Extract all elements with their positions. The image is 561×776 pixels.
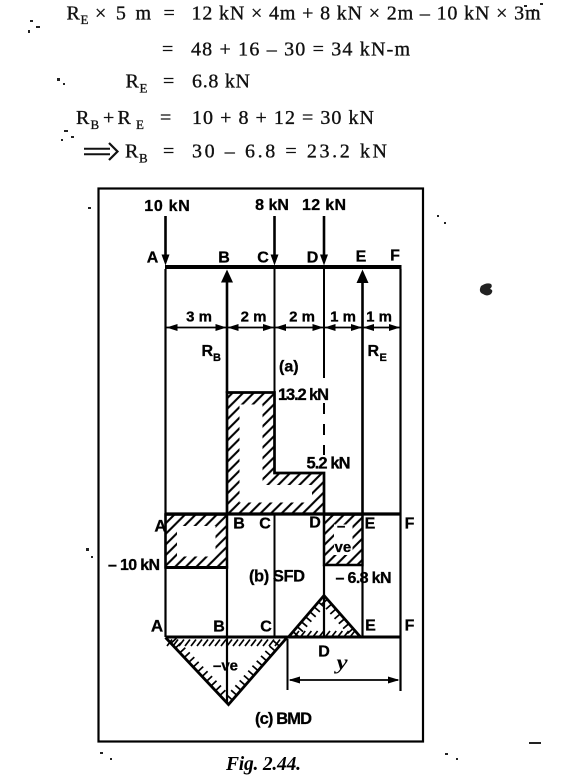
grid line E lower xyxy=(361,566,363,637)
svg-text:E: E xyxy=(380,352,387,364)
svg-text:ve: ve xyxy=(335,539,352,556)
svg-text:D: D xyxy=(307,250,319,267)
svg-text:y: y xyxy=(333,652,347,674)
svg-text:– 10 kN: – 10 kN xyxy=(108,557,160,574)
svg-text:R: R xyxy=(202,343,214,360)
svg-text:C: C xyxy=(259,516,271,533)
beam line xyxy=(165,265,402,269)
svg-text:–: – xyxy=(337,518,345,535)
svg-text:(b) SFD: (b) SFD xyxy=(249,568,305,586)
down arrow at x=324.0 xyxy=(320,216,328,266)
svg-text:12 kN × 4m + 8 kN × 2m – 10 kN: 12 kN × 4m + 8 kN × 2m – 10 kN × 3m xyxy=(192,3,541,25)
svg-text:B: B xyxy=(91,117,100,132)
equation line 4 xyxy=(76,107,374,132)
down arrow at x=274.5 xyxy=(271,216,279,266)
svg-text:F: F xyxy=(405,618,415,635)
svg-text:R: R xyxy=(76,107,90,129)
svg-text:A: A xyxy=(154,517,166,536)
svg-text:10 kN: 10 kN xyxy=(144,198,190,215)
y dimension vertical ticks xyxy=(287,639,289,690)
BMD letters xyxy=(151,617,415,661)
svg-text:R: R xyxy=(125,141,139,163)
grid line B lower xyxy=(226,566,228,703)
SFD negative rect D-E xyxy=(324,515,363,566)
svg-text:A: A xyxy=(151,617,163,636)
grid line D dashed xyxy=(323,403,325,455)
dimension labels xyxy=(186,309,392,326)
svg-text:E: E xyxy=(140,81,148,96)
svg-text:R: R xyxy=(67,3,81,25)
svg-text:Fig. 2.44.: Fig. 2.44. xyxy=(225,754,301,775)
reaction arrow R_E (up) xyxy=(357,270,369,515)
equation line 1 xyxy=(67,3,541,28)
grid line D lower xyxy=(323,565,325,637)
svg-text:D: D xyxy=(318,644,330,661)
svg-text:C: C xyxy=(260,619,272,636)
svg-text:+: + xyxy=(103,107,114,129)
equation line 5 xyxy=(84,141,387,166)
figure border box xyxy=(99,189,424,742)
svg-text:(c) BMD: (c) BMD xyxy=(255,710,312,728)
SFD axis xyxy=(166,512,402,515)
SFD positive shape hatch band xyxy=(227,393,324,515)
reaction arrow R_B (up) xyxy=(221,270,233,394)
svg-text:10 + 8 + 12 = 30 kN: 10 + 8 + 12 = 30 kN xyxy=(192,107,374,129)
svg-text:E: E xyxy=(365,618,376,635)
grid line F xyxy=(399,269,401,691)
svg-text:2 m: 2 m xyxy=(241,309,267,326)
svg-text:1 m: 1 m xyxy=(330,309,356,326)
svg-text:E: E xyxy=(356,249,367,266)
BMD negative triangle outline xyxy=(166,638,288,705)
label -ve in SFD xyxy=(335,518,352,556)
dimension line xyxy=(166,327,401,329)
grid line C xyxy=(274,269,276,473)
SFD negative rect A-B xyxy=(166,515,228,568)
label R_E xyxy=(368,343,387,364)
grid line A xyxy=(164,269,166,637)
svg-text:F: F xyxy=(405,516,415,533)
y dimension arrow xyxy=(289,677,400,684)
beam letters A-F xyxy=(147,248,400,267)
svg-text:E: E xyxy=(81,12,89,27)
svg-text:3 m: 3 m xyxy=(186,309,212,326)
svg-text:E: E xyxy=(365,516,376,533)
equation line 3 xyxy=(126,71,251,96)
svg-text:B: B xyxy=(233,516,245,533)
svg-text:=: = xyxy=(162,39,173,61)
svg-text:=: = xyxy=(164,3,175,25)
svg-text:8 kN: 8 kN xyxy=(255,197,289,214)
label R_B xyxy=(202,343,222,364)
svg-text:2 m: 2 m xyxy=(289,309,315,326)
svg-text:=: = xyxy=(163,141,174,163)
svg-text:12 kN: 12 kN xyxy=(302,197,346,214)
svg-text:E: E xyxy=(136,117,144,132)
equation line 2 xyxy=(162,39,410,61)
svg-text:R: R xyxy=(368,343,380,360)
svg-text:48 + 16 – 30 = 34 kN-m: 48 + 16 – 30 = 34 kN-m xyxy=(191,39,410,61)
svg-text:B: B xyxy=(218,250,230,267)
dimension arrowheads xyxy=(167,324,401,331)
grid line D upper xyxy=(323,269,325,378)
down arrow at x=165.5 xyxy=(162,216,170,266)
svg-text:C: C xyxy=(257,250,269,267)
BMD positive triangle ticks xyxy=(293,599,355,636)
svg-text:D: D xyxy=(309,515,321,532)
svg-text:1 m: 1 m xyxy=(366,309,392,326)
svg-text:B: B xyxy=(139,151,148,166)
BMD negative triangle ticks xyxy=(167,638,280,700)
SFD letters xyxy=(154,515,414,536)
svg-text:× 5 m: × 5 m xyxy=(95,3,151,25)
svg-text:=: = xyxy=(160,107,171,129)
svg-text:F: F xyxy=(390,248,400,265)
BMD positive triangle outline xyxy=(289,596,361,638)
svg-text:R: R xyxy=(126,71,140,93)
svg-text:B: B xyxy=(213,619,225,636)
svg-text:B: B xyxy=(213,352,221,364)
svg-text:(a): (a) xyxy=(279,359,299,376)
BMD axis xyxy=(166,636,402,639)
svg-text:13.2 kN: 13.2 kN xyxy=(278,386,329,404)
svg-text:5.2 kN: 5.2 kN xyxy=(307,455,351,473)
svg-text:–ve: –ve xyxy=(213,658,238,675)
svg-text:– 6.8 kN: – 6.8 kN xyxy=(336,570,392,587)
svg-text:=: = xyxy=(163,71,174,93)
svg-text:R: R xyxy=(118,107,132,129)
svg-text:30 – 6.8 = 23.2 kN: 30 – 6.8 = 23.2 kN xyxy=(192,141,387,163)
svg-text:6.8 kN: 6.8 kN xyxy=(192,71,250,93)
svg-text:A: A xyxy=(147,250,159,267)
